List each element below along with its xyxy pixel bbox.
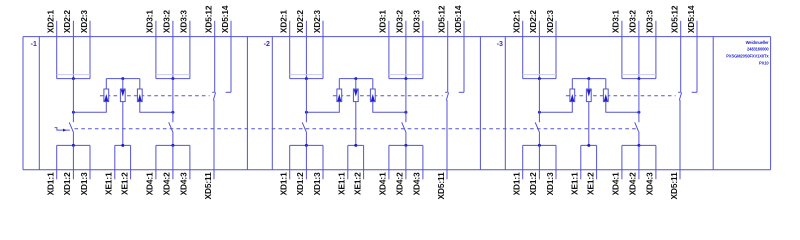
svg-text:XD4:1: XD4:1 [378, 172, 388, 196]
svg-text:XD4:3: XD4:3 [179, 172, 189, 196]
wire contact K2 to XD4 bus [172, 133, 174, 146]
terminal XD5:11 [203, 172, 213, 200]
label -2 [264, 41, 270, 48]
svg-text:XD2:3: XD2:3 [79, 10, 89, 34]
contact K1 blade [69, 122, 74, 133]
svg-text:XD1:1: XD1:1 [279, 172, 289, 196]
suppressor V2 [353, 79, 358, 102]
wire XD3 bus to contact K2 [638, 79, 640, 123]
info box text Weidmueller [726, 40, 769, 65]
connector housing XD3 [156, 74, 190, 76]
wire component bus [572, 77, 606, 80]
terminal XD2:2 [528, 10, 539, 79]
wire V2 to XE1 [588, 102, 590, 146]
section -1 [31, 5, 231, 199]
svg-text:XD3:3: XD3:3 [645, 10, 655, 34]
wire contact K1 to XD1 bus [305, 133, 307, 146]
section -2 [264, 5, 464, 199]
svg-text:XE1:2: XE1:2 [119, 172, 129, 195]
changeover contact K3 blade [213, 92, 215, 100]
wire V1 to coil node [72, 102, 106, 114]
wire component bus [339, 77, 373, 80]
wire XD1 bus [523, 144, 556, 147]
svg-text:XE1:1: XE1:1 [337, 172, 347, 195]
wire V2 to XE1 [355, 102, 357, 146]
wire XD2 bus [57, 77, 90, 80]
wire XD3 bus to contact K2 [405, 79, 407, 123]
terminal XD2:1 [512, 10, 523, 79]
terminal XD5:11 [436, 172, 446, 200]
wire pole to XD5:11 [446, 100, 448, 179]
terminal XD1:2 [62, 145, 73, 195]
terminal XD2:2 [295, 10, 306, 79]
svg-text:XD3:3: XD3:3 [179, 10, 189, 34]
svg-text:XD1:3: XD1:3 [312, 172, 322, 196]
terminal XD4:3 [412, 145, 423, 195]
wire XD3 bus [622, 77, 656, 80]
svg-text:XD1:1: XD1:1 [512, 172, 522, 196]
terminal XD5:14 [220, 5, 231, 92]
terminal XD3:2 [628, 10, 639, 79]
svg-text:-3: -3 [497, 41, 503, 48]
terminal XD1:2 [295, 145, 306, 195]
terminal XD4:3 [645, 145, 656, 195]
terminal XD3:2 [162, 10, 173, 79]
terminal XE1:2 [585, 145, 596, 195]
frame bottom edge [23, 169, 771, 171]
terminal XD3:1 [611, 10, 622, 79]
mechanical link dashed line (upper) [566, 95, 676, 97]
terminal XE1:2 [119, 145, 130, 195]
svg-text:-2: -2 [264, 41, 270, 48]
wire XD4 bus [389, 144, 423, 147]
terminal XD1:1 [46, 145, 57, 195]
label -1 [31, 41, 37, 48]
terminal XD2:1 [46, 10, 57, 79]
wire XD2 bus [523, 77, 556, 80]
module -2 left edge [271, 37, 273, 170]
wire XE1 bus [581, 144, 597, 147]
svg-text:XD2:1: XD2:1 [46, 10, 56, 34]
module -3 left edge [504, 37, 506, 170]
contact K1 blade [535, 122, 540, 133]
wire XD4 bus [156, 144, 190, 147]
terminal XE1:2 [352, 145, 363, 195]
divider section 1/2 [246, 37, 248, 170]
wire XD4 bus [622, 144, 656, 147]
svg-text:XD2:3: XD2:3 [545, 10, 555, 34]
svg-text:XD1:3: XD1:3 [545, 172, 555, 196]
terminal XD4:3 [179, 145, 190, 195]
connector housing XD2 [57, 74, 90, 76]
svg-text:-1: -1 [31, 41, 37, 48]
wire XD1 bus [57, 144, 90, 147]
wire V3 to contact node [140, 102, 175, 114]
wire V1 to coil node [538, 102, 572, 114]
svg-text:Weidmueller: Weidmueller [746, 40, 769, 45]
terminal XD2:3 [79, 10, 90, 79]
svg-text:XD5:11: XD5:11 [436, 172, 446, 200]
svg-text:XD2:1: XD2:1 [279, 10, 289, 34]
svg-text:XD4:1: XD4:1 [611, 172, 621, 196]
terminal XD2:3 [545, 10, 556, 79]
terminal XD5:12 [670, 5, 681, 92]
frame top edge [23, 36, 771, 38]
svg-text:XD5:12: XD5:12 [204, 5, 214, 33]
svg-text:XD4:3: XD4:3 [412, 172, 422, 196]
wire V2 to XE1 [122, 102, 124, 146]
svg-text:PX10: PX10 [759, 60, 769, 65]
svg-text:XD3:2: XD3:2 [395, 10, 405, 34]
indicator V1 [570, 79, 575, 102]
svg-text:XD1:2: XD1:2 [528, 172, 538, 196]
wire contact K1 to XD1 bus [72, 133, 74, 146]
svg-text:XD1:2: XD1:2 [62, 172, 72, 196]
terminal XD1:3 [79, 145, 90, 195]
info box right edge [770, 37, 772, 170]
svg-text:XD5:11: XD5:11 [669, 172, 679, 200]
svg-text:2483160000: 2483160000 [747, 47, 769, 52]
terminal XE1:1 [104, 145, 115, 195]
wire XE1 bus [115, 144, 131, 147]
svg-text:XD4:2: XD4:2 [162, 172, 172, 196]
wire XD3 bus [389, 77, 423, 80]
svg-text:PXSGM20S0FXV1X0Tx: PXSGM20S0FXV1X0Tx [726, 54, 769, 59]
svg-text:XD5:12: XD5:12 [670, 5, 680, 33]
terminal XD2:1 [279, 10, 290, 79]
changeover contact K3 blade [679, 92, 681, 100]
terminal XD2:3 [312, 10, 323, 79]
wire V1 to coil node [305, 102, 339, 114]
wire contact K2 to XD4 bus [638, 133, 640, 146]
indicator V3 [603, 79, 608, 102]
connector housing XD3 [622, 74, 656, 76]
terminal XD2:2 [62, 10, 73, 79]
indicator V1 [104, 79, 109, 102]
wire XD2 bus to contact K1 [538, 79, 540, 123]
terminal XD1:1 [512, 145, 523, 195]
terminal XD4:2 [628, 145, 639, 195]
terminal XE1:1 [337, 145, 348, 195]
wire XD2 bus [290, 77, 323, 80]
mechanical link dashed line (upper) [100, 95, 210, 97]
contact K2 blade [635, 122, 640, 133]
wire V3 to contact node [606, 102, 641, 114]
contact K1 blade [302, 122, 307, 133]
terminal XD1:2 [528, 145, 539, 195]
indicator V3 [137, 79, 142, 102]
terminal XD3:3 [179, 10, 190, 79]
connector housing XD3 [389, 74, 423, 76]
svg-text:XD5:14: XD5:14 [686, 5, 696, 33]
svg-text:XD3:3: XD3:3 [412, 10, 422, 34]
terminal XD4:1 [611, 145, 622, 195]
wire pole to XD5:11 [213, 100, 215, 179]
terminal XD1:1 [279, 145, 290, 195]
terminal XD4:2 [162, 145, 173, 195]
svg-text:XD3:1: XD3:1 [378, 10, 388, 34]
section -3 [497, 5, 697, 199]
wire XD1 bus [290, 144, 323, 147]
wire XD2 bus to contact K1 [72, 79, 74, 123]
wire XD2 bus to contact K1 [305, 79, 307, 123]
label -3 [497, 41, 503, 48]
svg-text:XD1:2: XD1:2 [295, 172, 305, 196]
terminal XD1:3 [312, 145, 323, 195]
suppressor V2 [120, 79, 125, 102]
terminal XD3:3 [412, 10, 423, 79]
wire contact K1 to XD1 bus [538, 133, 540, 146]
divider section 2/3 [479, 37, 481, 170]
svg-text:XE1:1: XE1:1 [104, 172, 114, 195]
indicator V3 [370, 79, 375, 102]
relay actuator symbol [55, 128, 70, 132]
terminal XD5:14 [453, 5, 464, 92]
svg-text:XD3:1: XD3:1 [145, 10, 155, 34]
connector housing XD2 [290, 74, 323, 76]
svg-text:XD3:2: XD3:2 [162, 10, 172, 34]
svg-text:XD3:1: XD3:1 [611, 10, 621, 34]
svg-text:XD5:12: XD5:12 [437, 5, 447, 33]
module -1 left edge [38, 37, 40, 170]
terminal XD5:12 [437, 5, 448, 92]
indicator V1 [337, 79, 342, 102]
divider section 3 / info box [712, 37, 714, 170]
terminal XD3:2 [395, 10, 406, 79]
svg-text:XE1:2: XE1:2 [352, 172, 362, 195]
wire XE1 bus [348, 144, 364, 147]
svg-text:XD5:14: XD5:14 [453, 5, 463, 33]
terminal XD5:12 [204, 5, 215, 92]
wire V3 to contact node [373, 102, 408, 114]
mechanical link dashed line (lower) [75, 128, 638, 130]
terminal XD4:1 [145, 145, 156, 195]
wire XD3 bus [156, 77, 190, 80]
svg-text:XD2:3: XD2:3 [312, 10, 322, 34]
svg-text:XD4:2: XD4:2 [395, 172, 405, 196]
terminal XD5:11 [669, 172, 679, 200]
terminal XD5:14 [686, 5, 697, 92]
connector housing XD2 [523, 74, 556, 76]
changeover contact K3 blade [446, 92, 448, 100]
terminal XD1:3 [545, 145, 556, 195]
svg-text:XD2:1: XD2:1 [512, 10, 522, 34]
svg-text:XD2:2: XD2:2 [528, 10, 538, 34]
mechanical link dashed line (upper) [333, 95, 443, 97]
svg-text:XD4:3: XD4:3 [645, 172, 655, 196]
svg-text:XD2:2: XD2:2 [62, 10, 72, 34]
svg-text:XD3:2: XD3:2 [628, 10, 638, 34]
svg-text:XD2:2: XD2:2 [295, 10, 305, 34]
svg-text:XD1:3: XD1:3 [79, 172, 89, 196]
wire XD3 bus to contact K2 [172, 79, 174, 123]
wire component bus [106, 77, 140, 80]
contact K2 blade [169, 122, 174, 133]
terminal XD4:1 [378, 145, 389, 195]
svg-text:XE1:1: XE1:1 [570, 172, 580, 195]
svg-text:XD5:14: XD5:14 [220, 5, 230, 33]
terminal XD3:3 [645, 10, 656, 79]
terminal XD3:1 [145, 10, 156, 79]
terminal XE1:1 [570, 145, 581, 195]
wire contact K2 to XD4 bus [405, 133, 407, 146]
svg-text:XD1:1: XD1:1 [46, 172, 56, 196]
contact K2 blade [402, 122, 407, 133]
svg-text:XD4:2: XD4:2 [628, 172, 638, 196]
wire pole to XD5:11 [679, 100, 681, 179]
suppressor V2 [586, 79, 591, 102]
svg-text:XD5:11: XD5:11 [203, 172, 213, 200]
svg-text:XD4:1: XD4:1 [145, 172, 155, 196]
terminal XD3:1 [378, 10, 389, 79]
frame outer left edge [22, 37, 24, 170]
svg-text:XE1:2: XE1:2 [585, 172, 595, 195]
terminal XD4:2 [395, 145, 406, 195]
